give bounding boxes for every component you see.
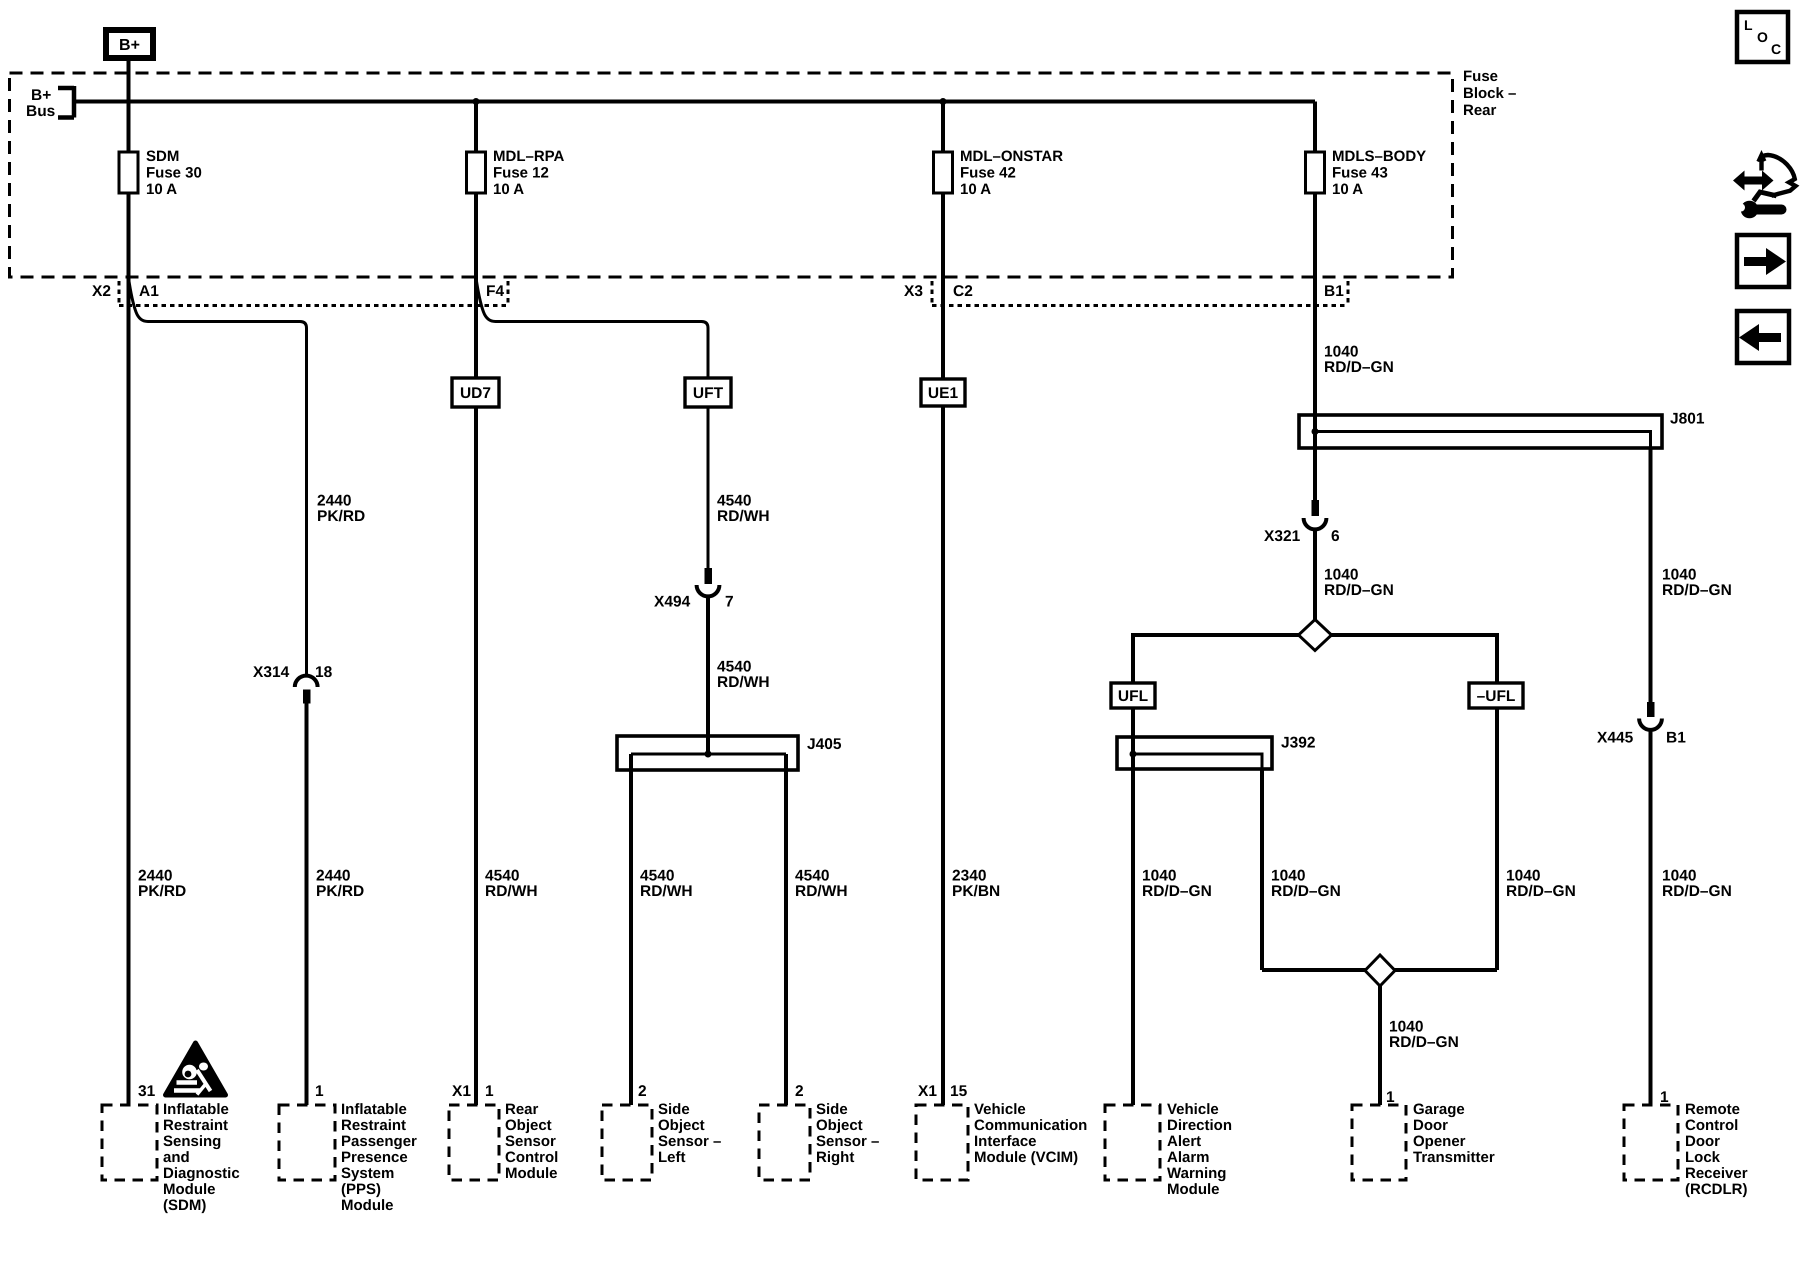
- svg-text:Rear: Rear: [1463, 102, 1497, 119]
- svg-text:Block –: Block –: [1463, 85, 1516, 102]
- svg-text:MDL–ONSTAR: MDL–ONSTAR: [960, 148, 1063, 165]
- svg-text:Module: Module: [505, 1165, 558, 1182]
- svg-text:UE1: UE1: [928, 385, 959, 402]
- svg-text:F4: F4: [486, 283, 504, 300]
- svg-text:Inflatable: Inflatable: [163, 1101, 229, 1118]
- svg-text:15: 15: [950, 1083, 968, 1100]
- svg-text:PK/BN: PK/BN: [952, 883, 1000, 900]
- svg-text:Sensor: Sensor: [505, 1133, 556, 1150]
- svg-text:RD/WH: RD/WH: [717, 508, 770, 525]
- svg-text:7: 7: [725, 594, 734, 611]
- svg-text:Opener: Opener: [1413, 1133, 1466, 1150]
- svg-text:(SDM): (SDM): [163, 1197, 206, 1214]
- svg-text:MDLS–BODY: MDLS–BODY: [1332, 148, 1426, 165]
- svg-text:6: 6: [1331, 528, 1340, 545]
- svg-text:2440: 2440: [138, 868, 172, 885]
- svg-text:Fuse 30: Fuse 30: [146, 165, 202, 182]
- svg-text:Sensor –: Sensor –: [658, 1133, 721, 1150]
- svg-text:4540: 4540: [795, 868, 829, 885]
- svg-text:Module: Module: [341, 1197, 394, 1214]
- svg-text:Right: Right: [816, 1149, 854, 1166]
- svg-text:Passenger: Passenger: [341, 1133, 417, 1150]
- svg-text:UFT: UFT: [693, 385, 724, 402]
- svg-text:Fuse 42: Fuse 42: [960, 165, 1016, 182]
- svg-text:B1: B1: [1666, 730, 1686, 747]
- svg-text:Garage: Garage: [1413, 1101, 1465, 1118]
- svg-text:X3: X3: [904, 283, 923, 300]
- svg-text:1040: 1040: [1324, 567, 1358, 584]
- svg-text:X445: X445: [1597, 730, 1634, 747]
- svg-text:L: L: [1744, 17, 1753, 33]
- svg-text:10 A: 10 A: [960, 181, 991, 198]
- svg-text:10 A: 10 A: [493, 181, 524, 198]
- svg-text:Fuse 12: Fuse 12: [493, 165, 549, 182]
- svg-text:4540: 4540: [717, 493, 751, 510]
- svg-text:Alarm: Alarm: [1167, 1149, 1210, 1166]
- svg-text:Object: Object: [658, 1117, 705, 1134]
- svg-text:2440: 2440: [317, 493, 351, 510]
- svg-text:Side: Side: [816, 1101, 848, 1118]
- svg-text:4540: 4540: [485, 868, 519, 885]
- svg-text:O: O: [1757, 29, 1768, 45]
- svg-text:Door: Door: [1413, 1117, 1448, 1134]
- svg-text:Interface: Interface: [974, 1133, 1037, 1150]
- svg-text:Restraint: Restraint: [163, 1117, 228, 1134]
- svg-text:RD/D–GN: RD/D–GN: [1324, 359, 1394, 376]
- svg-text:Control: Control: [505, 1149, 558, 1166]
- svg-text:RD/D–GN: RD/D–GN: [1142, 883, 1212, 900]
- svg-text:System: System: [341, 1165, 394, 1182]
- svg-text:Warning: Warning: [1167, 1165, 1226, 1182]
- svg-text:RD/D–GN: RD/D–GN: [1271, 883, 1341, 900]
- svg-text:1: 1: [1386, 1089, 1395, 1106]
- svg-text:1040: 1040: [1389, 1019, 1423, 1036]
- svg-text:1040: 1040: [1662, 567, 1696, 584]
- svg-text:UFL: UFL: [1118, 688, 1148, 705]
- svg-text:RD/D–GN: RD/D–GN: [1506, 883, 1576, 900]
- svg-text:RD/WH: RD/WH: [640, 883, 693, 900]
- svg-text:Fuse 43: Fuse 43: [1332, 165, 1388, 182]
- svg-text:Sensor –: Sensor –: [816, 1133, 879, 1150]
- svg-text:2: 2: [638, 1083, 647, 1100]
- svg-text:Left: Left: [658, 1149, 686, 1166]
- svg-text:PK/RD: PK/RD: [317, 508, 365, 525]
- svg-text:1: 1: [315, 1083, 324, 1100]
- svg-text:PK/RD: PK/RD: [138, 883, 186, 900]
- svg-text:SDM: SDM: [146, 148, 179, 165]
- svg-text:RD/D–GN: RD/D–GN: [1662, 582, 1732, 599]
- svg-text:X1: X1: [452, 1083, 471, 1100]
- svg-text:Door: Door: [1685, 1133, 1720, 1150]
- svg-text:B1: B1: [1324, 283, 1344, 300]
- svg-text:B+: B+: [31, 87, 51, 104]
- svg-text:Fuse: Fuse: [1463, 68, 1498, 85]
- svg-text:Lock: Lock: [1685, 1149, 1721, 1166]
- svg-text:Transmitter: Transmitter: [1413, 1149, 1495, 1166]
- svg-text:X314: X314: [253, 664, 290, 681]
- svg-text:C: C: [1771, 41, 1781, 57]
- svg-text:Communication: Communication: [974, 1117, 1087, 1134]
- svg-text:Sensing: Sensing: [163, 1133, 221, 1150]
- svg-text:RD/D–GN: RD/D–GN: [1324, 582, 1394, 599]
- svg-text:X494: X494: [654, 594, 691, 611]
- svg-text:Bus: Bus: [26, 103, 55, 120]
- svg-text:Vehicle: Vehicle: [1167, 1101, 1219, 1118]
- svg-text:J801: J801: [1670, 411, 1705, 428]
- svg-text:Restraint: Restraint: [341, 1117, 406, 1134]
- svg-text:Object: Object: [505, 1117, 552, 1134]
- svg-text:UD7: UD7: [460, 385, 491, 402]
- svg-text:X2: X2: [92, 283, 111, 300]
- svg-text:X321: X321: [1264, 528, 1301, 545]
- svg-text:1040: 1040: [1142, 868, 1176, 885]
- svg-text:31: 31: [138, 1083, 156, 1100]
- svg-text:Alert: Alert: [1167, 1133, 1201, 1150]
- svg-text:–UFL: –UFL: [1477, 688, 1516, 705]
- svg-text:Module: Module: [1167, 1181, 1220, 1198]
- svg-text:1: 1: [1660, 1089, 1669, 1106]
- svg-text:J392: J392: [1281, 735, 1315, 752]
- svg-text:1040: 1040: [1324, 344, 1358, 361]
- svg-text:RD/WH: RD/WH: [795, 883, 848, 900]
- svg-text:and: and: [163, 1149, 190, 1166]
- svg-text:Rear: Rear: [505, 1101, 539, 1118]
- svg-text:B+: B+: [119, 37, 140, 54]
- svg-text:(RCDLR): (RCDLR): [1685, 1181, 1747, 1198]
- svg-text:4540: 4540: [717, 659, 751, 676]
- svg-text:Module: Module: [163, 1181, 216, 1198]
- svg-text:Control: Control: [1685, 1117, 1738, 1134]
- svg-text:X1: X1: [918, 1083, 937, 1100]
- svg-text:Remote: Remote: [1685, 1101, 1740, 1118]
- svg-text:Diagnostic: Diagnostic: [163, 1165, 240, 1182]
- svg-text:2: 2: [795, 1083, 804, 1100]
- svg-text:MDL–RPA: MDL–RPA: [493, 148, 565, 165]
- svg-text:1040: 1040: [1271, 868, 1305, 885]
- svg-text:1040: 1040: [1506, 868, 1540, 885]
- svg-text:Receiver: Receiver: [1685, 1165, 1748, 1182]
- svg-text:Side: Side: [658, 1101, 690, 1118]
- svg-text:RD/WH: RD/WH: [485, 883, 538, 900]
- svg-text:2340: 2340: [952, 868, 986, 885]
- svg-text:(PPS): (PPS): [341, 1181, 381, 1198]
- svg-text:C2: C2: [953, 283, 973, 300]
- svg-text:1040: 1040: [1662, 868, 1696, 885]
- svg-text:Inflatable: Inflatable: [341, 1101, 407, 1118]
- svg-text:RD/WH: RD/WH: [717, 674, 770, 691]
- svg-text:A1: A1: [139, 283, 159, 300]
- svg-text:1: 1: [485, 1083, 494, 1100]
- svg-text:Presence: Presence: [341, 1149, 408, 1166]
- svg-text:Direction: Direction: [1167, 1117, 1232, 1134]
- svg-text:Vehicle: Vehicle: [974, 1101, 1026, 1118]
- svg-text:Object: Object: [816, 1117, 863, 1134]
- svg-text:4540: 4540: [640, 868, 674, 885]
- svg-text:10 A: 10 A: [1332, 181, 1363, 198]
- svg-text:18: 18: [315, 664, 333, 681]
- svg-text:J405: J405: [807, 736, 842, 753]
- svg-text:2440: 2440: [316, 868, 350, 885]
- svg-text:10 A: 10 A: [146, 181, 177, 198]
- svg-text:Module (VCIM): Module (VCIM): [974, 1149, 1078, 1166]
- svg-text:RD/D–GN: RD/D–GN: [1662, 883, 1732, 900]
- svg-text:PK/RD: PK/RD: [316, 883, 364, 900]
- svg-text:RD/D–GN: RD/D–GN: [1389, 1034, 1459, 1051]
